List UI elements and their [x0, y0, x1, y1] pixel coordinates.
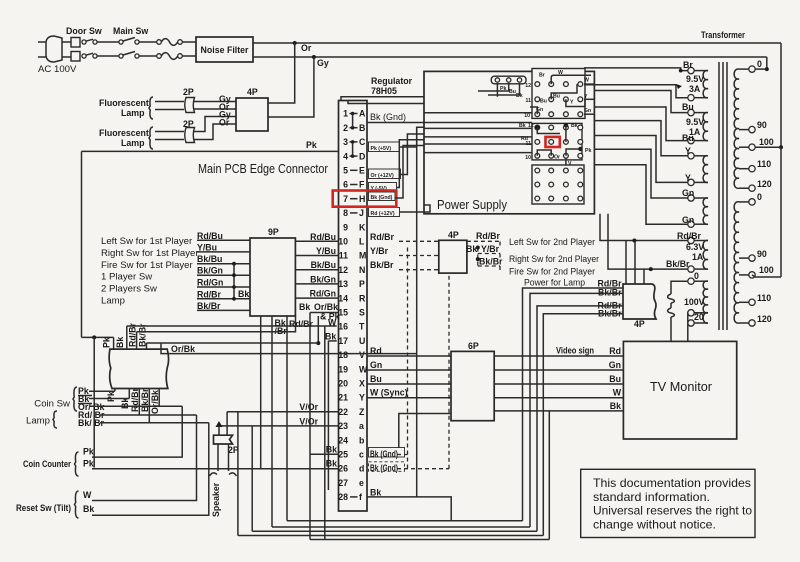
- svg-text:Y/Br: Y/Br: [370, 246, 389, 256]
- brace coin sw: [73, 387, 77, 411]
- svg-text:Video sign: Video sign: [556, 346, 594, 356]
- svg-text:Y/Bu: Y/Bu: [197, 242, 217, 252]
- svg-text:Fire Sw for 2nd Player: Fire Sw for 2nd Player: [509, 267, 596, 278]
- wire PS internal Bk gnd: [424, 122, 532, 124]
- svg-text:Or/Bk: Or/Bk: [150, 390, 160, 414]
- tap 110 lower: [739, 301, 749, 303]
- svg-text:16: 16: [338, 322, 348, 332]
- connector pin block 3 (lower): [532, 165, 584, 204]
- svg-text:H: H: [359, 194, 365, 204]
- svg-text:Lamp: Lamp: [121, 138, 145, 148]
- wire Bk Gnd pin A to power supply: [367, 122, 424, 124]
- highlight red box power supply pin: [546, 137, 560, 147]
- svg-text:10: 10: [338, 237, 348, 247]
- svg-text:27: 27: [338, 478, 348, 488]
- wire pin-C vertical long ground drop: [416, 127, 418, 497]
- winding primary upper: [734, 69, 739, 188]
- junction at primary 0 tap: [765, 67, 769, 71]
- wire dashed Rd/Br to 4P 2nd player: [399, 240, 439, 242]
- connector 4P fluorescent: [236, 98, 268, 131]
- tap 120 upper: [739, 187, 749, 189]
- wire Y to winding top: [594, 121, 687, 156]
- svg-text:Y: Y: [685, 173, 691, 183]
- wire dashed stub Rd/Br right: [467, 240, 500, 242]
- wire bundle H4: [238, 535, 543, 537]
- svg-text:Pk (+5V): Pk (+5V): [371, 146, 392, 152]
- wire Gy: noise filter lower run: [253, 56, 767, 58]
- wire block2 internal v: [565, 125, 567, 142]
- wire regulator line 2: [348, 101, 534, 104]
- wire video Bk from pin c gnd: [399, 414, 451, 449]
- svg-text:24: 24: [338, 435, 348, 445]
- svg-text:11: 11: [526, 98, 532, 104]
- svg-text:Or: Or: [219, 118, 230, 128]
- TV monitor box: [623, 341, 736, 439]
- svg-text:Bk/Br: Bk/Br: [370, 260, 394, 270]
- wire header pin3 drop: [488, 83, 520, 95]
- wire block2 internal right: [566, 149, 580, 156]
- wire dashed pin c gnd: [397, 454, 408, 456]
- svg-text:Regulator: Regulator: [371, 76, 413, 86]
- wire Pk frame top: [82, 150, 339, 152]
- wire lamp Bk/Br: [100, 422, 209, 424]
- wire block2 internal top: [537, 128, 560, 134]
- wire Y to winding bottom: [594, 136, 687, 183]
- brace lamp1: [149, 97, 153, 119]
- svg-text:Rd/Br: Rd/Br: [130, 387, 140, 412]
- door switch top (connector + contacts): [71, 38, 80, 48]
- svg-text:Y/Bu: Y/Bu: [316, 246, 336, 256]
- svg-text:Or: Or: [554, 155, 560, 161]
- svg-text:Bk: Bk: [326, 459, 337, 469]
- junction Bk 2nd player: [476, 246, 480, 250]
- wire 0 tap to frame: [755, 68, 767, 70]
- svg-text:12: 12: [525, 83, 531, 89]
- wire coin block bottom pin Bk: [128, 389, 130, 399]
- wire 9P left Bk/Bu: [197, 263, 250, 265]
- wire 9P bottom drop to bundle: [271, 316, 273, 527]
- wire 9P left Rd/Gn: [197, 286, 250, 288]
- wire reset W: [92, 415, 197, 501]
- svg-text:Y/Br: Y/Br: [481, 244, 500, 254]
- wire regulator line 1: [341, 97, 497, 101]
- wire 9P common Bk tie: [233, 264, 235, 299]
- wire 4P lamp pin1 up: [625, 241, 627, 285]
- svg-text:Gn: Gn: [584, 108, 591, 114]
- svg-text:2: 2: [343, 123, 348, 133]
- wire main-to-fuse bottom: [139, 55, 157, 57]
- svg-text:Bk: Bk: [326, 444, 337, 454]
- svg-text:Bu: Bu: [682, 133, 694, 143]
- wire PS internal 5: [424, 152, 532, 154]
- wire bundle V2 right riser to lamp Bk/Br: [530, 293, 623, 527]
- svg-text:AC 100V: AC 100V: [38, 64, 77, 75]
- wire bundle V5 right riser: [548, 411, 550, 540]
- svg-text:X: X: [359, 379, 365, 389]
- svg-text:10: 10: [525, 155, 531, 161]
- wire 4P lamp pin3 up: [643, 269, 645, 284]
- svg-text:7: 7: [343, 194, 348, 204]
- speaker bracket: [210, 473, 218, 476]
- junction Br: [679, 69, 683, 73]
- fuse lower: [668, 308, 675, 317]
- wire video right to TV: [494, 355, 623, 357]
- AC plug: [46, 36, 62, 62]
- wire 9P right Rd/Gn to pin 14: [295, 297, 338, 299]
- svg-text:78H05: 78H05: [371, 86, 397, 96]
- svg-text:Lamp: Lamp: [101, 296, 125, 307]
- svg-text:14: 14: [338, 293, 348, 303]
- wire 9P right Bk/Gn to pin 13: [295, 283, 338, 285]
- wire fuse-to-noisefilter top: [182, 41, 196, 43]
- svg-text:9P: 9P: [268, 227, 279, 237]
- svg-text:V/Or: V/Or: [299, 416, 318, 426]
- door switch bottom: [71, 52, 80, 62]
- svg-text:Bu: Bu: [509, 89, 516, 95]
- svg-text:Fire Sw for 1st Player: Fire Sw for 1st Player: [101, 260, 194, 271]
- svg-text:Pk: Pk: [102, 337, 112, 348]
- wire tie pins 3-4: [352, 142, 354, 156]
- junction block2 p1: [535, 125, 539, 129]
- connector 4P lamp: [623, 284, 656, 319]
- wire bundle H1: [287, 520, 523, 522]
- wire Pk +5V to PS: [400, 127, 425, 147]
- tap 110 upper: [739, 168, 749, 170]
- svg-text:Y: Y: [570, 100, 574, 106]
- svg-text:Or/Bk: Or/Bk: [314, 302, 338, 312]
- wire Bk/Br to 6.3V bottom: [608, 214, 688, 269]
- wire AC bottom from plug: [62, 56, 72, 58]
- wire PS bottom internal: [424, 205, 430, 212]
- svg-text:10: 10: [524, 113, 530, 119]
- junction Rd/Br lamp: [632, 239, 636, 243]
- svg-text:Bk/Br: Bk/Br: [197, 301, 221, 311]
- wire left frame vertical: [81, 151, 83, 337]
- wire dashed stub Bk/Br right: [478, 265, 500, 267]
- wire Y -5V to PS: [397, 140, 425, 188]
- wire pin 28 f Bk: [367, 497, 451, 521]
- svg-text:Br: Br: [539, 73, 545, 79]
- wire 0-tap down to TV with fuses: [671, 281, 688, 294]
- svg-text:Bk: Bk: [466, 244, 477, 254]
- wire speaker drop 2: [226, 412, 228, 436]
- wire video Rd left: [367, 355, 451, 357]
- wire coin sw Pk: [89, 390, 115, 392]
- svg-text:4P: 4P: [247, 87, 258, 97]
- wire frame bottom to coin block: [82, 336, 114, 338]
- wire video Gn left: [367, 369, 451, 371]
- wire Bu to 9.5V1A bottom: [594, 107, 687, 141]
- svg-text:22: 22: [338, 407, 348, 417]
- junction Bk/Br lamp: [649, 267, 653, 271]
- svg-text:Power Supply: Power Supply: [437, 198, 508, 212]
- svg-text:Right Sw for 1st Player: Right Sw for 1st Player: [101, 248, 199, 259]
- svg-text:100: 100: [759, 137, 774, 147]
- wire bundle H5: [310, 539, 549, 541]
- svg-text:1 Player Sw: 1 Player Sw: [101, 272, 152, 283]
- svg-text:K: K: [359, 222, 366, 232]
- svg-text:Rd/Br: Rd/Br: [197, 289, 222, 299]
- wire 9P left Bk/Gn: [197, 274, 250, 276]
- wire coin sw Bk: [89, 398, 129, 400]
- svg-text:25: 25: [338, 450, 348, 460]
- wire 9P pin-S drop: [309, 313, 311, 540]
- svg-text:Rd/Bu: Rd/Bu: [197, 231, 223, 241]
- wire bundle V4 left from pin 22 row: [237, 412, 239, 536]
- svg-text:Fluorescent: Fluorescent: [99, 98, 149, 108]
- svg-text:T: T: [359, 322, 365, 332]
- svg-text:9.5V: 9.5V: [686, 117, 704, 127]
- wire block1 Bu bus: [551, 84, 577, 99]
- wire 4P to Gy junction: [268, 57, 314, 117]
- svg-text:Bu: Bu: [682, 102, 694, 112]
- winding 9.5V 3A: [703, 70, 708, 97]
- winding primary lower: [734, 202, 739, 323]
- wire dashed gnd drop from 4P area: [407, 248, 409, 471]
- junction block2 p3 top: [564, 123, 568, 127]
- svg-text:4P: 4P: [634, 319, 645, 329]
- wire 9P amp-Pk drop: [317, 316, 319, 343]
- svg-text:Or/Bk: Or/Bk: [171, 344, 195, 354]
- svg-text:110: 110: [757, 159, 771, 169]
- wire coin counter Pk 1: [92, 406, 182, 457]
- wire coin block bottom pin Rd/Br: [138, 389, 140, 416]
- wire dashed riser to 4P bottom: [448, 273, 450, 469]
- label Pk +5V pin C: [369, 142, 400, 152]
- svg-text:Bu: Bu: [553, 94, 560, 100]
- wire 9P left Rd/Br: [197, 298, 250, 300]
- svg-text:P: P: [359, 279, 365, 289]
- svg-text:Rd: Rd: [609, 346, 621, 356]
- wire header pin1 drop: [496, 83, 498, 97]
- junction &Pk: [316, 341, 320, 345]
- connector 2P speaker: [214, 435, 233, 444]
- svg-text:Br: Br: [683, 60, 693, 70]
- wire coin counter Pk 2 to pin d: [92, 468, 339, 470]
- wire block1 stub: [584, 113, 594, 115]
- svg-text:17: 17: [338, 336, 348, 346]
- svg-text:Bk: Bk: [238, 289, 249, 299]
- svg-text:120: 120: [757, 179, 772, 189]
- svg-text:Z: Z: [359, 407, 365, 417]
- wire dashed Bk common 2nd player: [477, 248, 479, 267]
- svg-text:Right Sw for 2nd Player: Right Sw for 2nd Player: [509, 254, 600, 265]
- svg-text:B: B: [359, 123, 365, 133]
- svg-text:Bu: Bu: [370, 374, 382, 384]
- svg-text:Bk/Bu: Bk/Bu: [311, 260, 336, 270]
- connector 2P lamp1: [185, 98, 195, 113]
- wire 4P lamp pin2 up: [634, 241, 636, 285]
- tap 100 lower: [739, 274, 749, 276]
- wire PS internal 2: [424, 127, 532, 129]
- wire tie pins 1-2: [352, 114, 354, 128]
- svg-text:18: 18: [338, 350, 348, 360]
- label Y -5V pin F: [369, 183, 397, 192]
- svg-text:4P: 4P: [448, 230, 459, 240]
- label Bk Gnd pin H: [369, 192, 396, 201]
- wire coin block bottom pin Pk: [114, 389, 116, 392]
- svg-text:A: A: [359, 109, 366, 119]
- wire Bk to pin T long: [127, 325, 337, 327]
- fuse bottom: [157, 54, 162, 59]
- wire coin block top pin Bk: [126, 326, 128, 349]
- wire 120-tap down to TV: [687, 313, 689, 342]
- wire block1 Gn bus: [530, 107, 537, 114]
- svg-text:0: 0: [757, 192, 762, 202]
- wire Br to 9.5V3A top: [584, 68, 688, 71]
- wire 9P left Y/Bu: [197, 251, 250, 253]
- tap 0 upper: [739, 68, 749, 70]
- wire right frame vertical lower: [780, 147, 782, 277]
- connector 9P box: [250, 238, 295, 316]
- svg-text:11: 11: [339, 251, 348, 261]
- wire video Bk right to TV: [494, 410, 623, 412]
- label Or +12V pin E: [369, 169, 401, 179]
- wire 2P lamp1 to 4P (Gy/Or): [194, 101, 236, 103]
- svg-text:20: 20: [338, 379, 348, 389]
- svg-text:Y: Y: [685, 146, 691, 156]
- svg-text:Pk: Pk: [106, 391, 116, 402]
- wire to 9.5V3A bottom: [584, 85, 688, 98]
- junction Gy: [312, 55, 316, 59]
- svg-text:N: N: [359, 265, 365, 275]
- svg-text:Rd: Rd: [370, 346, 382, 356]
- svg-text:a: a: [359, 421, 364, 431]
- svg-text:Left Sw for 2nd Player: Left Sw for 2nd Player: [509, 237, 596, 248]
- noise filter box: [196, 37, 253, 62]
- svg-text:Bu: Bu: [540, 99, 547, 105]
- power supply box: [424, 71, 594, 213]
- svg-text:2P: 2P: [183, 87, 194, 97]
- svg-text:M: M: [359, 251, 366, 261]
- wire coin block top pin Pk: [113, 337, 115, 349]
- svg-text:J: J: [359, 208, 364, 218]
- svg-text:F: F: [359, 180, 365, 190]
- svg-text:13: 13: [338, 279, 348, 289]
- svg-text:Rd/Br: Rd/Br: [476, 231, 501, 241]
- winding 100V: [703, 281, 708, 313]
- svg-text:23: 23: [338, 421, 348, 431]
- wire block1 W bus: [551, 75, 591, 84]
- wire video W (Sync) left: [367, 397, 451, 399]
- svg-text:Bk: Bk: [325, 332, 336, 342]
- svg-text:Rd/Bu: Rd/Bu: [310, 232, 336, 242]
- wire PS internal 4: [424, 143, 532, 145]
- svg-text:W: W: [359, 364, 368, 374]
- svg-text:2 Players Sw: 2 Players Sw: [101, 284, 157, 295]
- connector coin-lamp block: [109, 349, 168, 388]
- svg-text:D: D: [359, 151, 365, 161]
- wire 9P right Bk/Bu to pin 12: [295, 269, 338, 271]
- wire coin block bottom pin Or/Bk: [158, 389, 160, 407]
- svg-text:e: e: [359, 478, 364, 488]
- svg-text:19: 19: [338, 364, 348, 374]
- svg-text:Pk: Pk: [585, 148, 591, 154]
- wire 9P left Rd/Bu: [197, 239, 250, 241]
- wire 9P right Y/Bu to pin 11: [295, 255, 338, 257]
- wire Rd/Br to 9P drop: [137, 316, 296, 332]
- svg-text:Rd (+12V): Rd (+12V): [371, 211, 395, 217]
- wire pin U drop: [327, 341, 329, 490]
- svg-text:c: c: [359, 450, 364, 460]
- svg-text:Bk (Gnd): Bk (Gnd): [370, 463, 398, 473]
- junction Bk 2nd player 2: [476, 257, 480, 261]
- connector pin block 1 (upper): [532, 69, 585, 119]
- svg-text:Bk: Bk: [115, 337, 125, 348]
- wire Gn to winding bottom: [594, 165, 687, 224]
- wire main-to-fuse top: [139, 41, 157, 43]
- svg-text:f: f: [359, 492, 362, 502]
- winding 9.5V 1A: [703, 112, 708, 140]
- svg-text:0: 0: [757, 59, 762, 69]
- tap 90 lower: [739, 257, 749, 259]
- wire 9P left Bk/Br: [197, 309, 250, 311]
- svg-text:Pk: Pk: [83, 459, 94, 469]
- svg-text:Coin Counter: Coin Counter: [23, 459, 71, 469]
- wire pin T drop to bundle: [324, 326, 326, 540]
- wire Or/Bk branch: [161, 343, 417, 354]
- highlight red box pin 7: [333, 191, 397, 207]
- wire 100 tap to frame: [755, 146, 781, 148]
- arrow mark 3A: [676, 84, 682, 89]
- wire dashed Y/Br to 4P 2nd player: [399, 255, 439, 257]
- svg-text:Bk/Br: Bk/Br: [598, 288, 622, 298]
- wire PS internal 3: [424, 136, 532, 138]
- svg-text:W: W: [613, 388, 622, 398]
- wire pin 23 V/Or with arrow: [219, 425, 339, 427]
- svg-text:C: C: [359, 137, 366, 147]
- svg-text:Power for Lamp: Power for Lamp: [524, 278, 585, 289]
- wire Rd +12V to PS: [400, 211, 425, 213]
- svg-text:Transformer: Transformer: [701, 30, 745, 40]
- svg-text:6: 6: [343, 180, 348, 190]
- svg-text:Or: Or: [301, 43, 312, 53]
- wire dashed stub Y/Br right: [478, 253, 500, 255]
- svg-text:Gn: Gn: [370, 360, 382, 370]
- winding 20: [703, 313, 708, 323]
- svg-text:Y: Y: [359, 393, 365, 403]
- svg-text:TV Monitor: TV Monitor: [650, 380, 712, 394]
- wire bundle V1 right riser to lamp Rd/Br: [523, 288, 624, 521]
- wire Bk Gnd H to PS: [395, 146, 424, 199]
- wire 100 tap lower to frame: [755, 276, 781, 278]
- wire header pin2 drop: [478, 83, 509, 91]
- svg-text:L: L: [359, 237, 365, 247]
- label Rd +12V pin J: [369, 208, 400, 217]
- svg-text:Gn: Gn: [682, 188, 694, 198]
- documentation note box: [581, 469, 755, 537]
- svg-text:Bk: Bk: [299, 302, 310, 312]
- svg-text:20: 20: [694, 312, 704, 322]
- wire coin block bottom pin Bk/Br: [148, 389, 150, 423]
- svg-text:21: 21: [338, 393, 348, 403]
- svg-text:3: 3: [343, 137, 348, 147]
- junction block2 right: [578, 147, 582, 151]
- connector 2P lamp2: [185, 128, 195, 143]
- svg-text:Door Sw: Door Sw: [66, 26, 102, 36]
- svg-text:9.5V: 9.5V: [686, 74, 704, 84]
- svg-text:standard information.: standard information.: [593, 490, 710, 504]
- wire pin 25 c Bk: [310, 453, 339, 455]
- connector pin block 2 (middle, highlighted): [532, 123, 582, 159]
- wire speaker drop 1: [218, 426, 220, 435]
- wire 4P to Or junction: [268, 43, 295, 103]
- wire AC top from plug: [62, 41, 72, 43]
- svg-text:Bk/Br: Bk/Br: [666, 259, 690, 269]
- svg-text:15: 15: [338, 308, 348, 318]
- svg-text:d: d: [359, 464, 364, 474]
- svg-text:W: W: [83, 490, 92, 500]
